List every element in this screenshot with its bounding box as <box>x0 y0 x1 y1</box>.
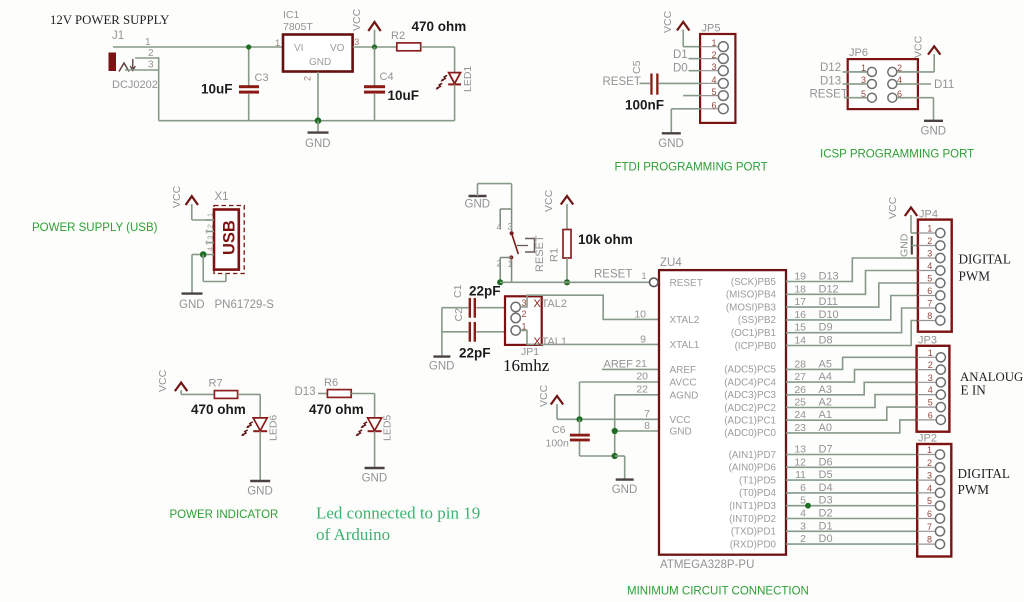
wire VCC to JP5 pin1 <box>683 46 700 48</box>
svg-text:3: 3 <box>148 60 154 71</box>
svg-text:D11: D11 <box>934 79 954 91</box>
svg-text:4: 4 <box>928 385 933 395</box>
svg-text:1: 1 <box>641 271 646 281</box>
svg-text:X1: X1 <box>215 191 229 203</box>
pin number 13 and net label D7 <box>794 444 832 456</box>
svg-text:RESET: RESET <box>603 76 641 88</box>
net label XTAL2 <box>534 298 567 310</box>
svg-text:25: 25 <box>794 397 806 409</box>
svg-text:GND: GND <box>247 486 273 498</box>
svg-text:VCC: VCC <box>171 185 183 208</box>
svg-text:DIGITAL: DIGITAL <box>959 252 1011 267</box>
svg-text:(ADC4)PC4: (ADC4)PC4 <box>724 377 776 388</box>
svg-text:C5: C5 <box>631 60 643 74</box>
node C6 ground junction <box>612 453 618 459</box>
wire JP6 pin4 to D11 <box>897 83 931 85</box>
svg-text:DIGITAL: DIGITAL <box>958 466 1010 481</box>
svg-text:VCC: VCC <box>887 196 899 219</box>
wire JP5 pin6 to ground <box>671 109 700 133</box>
svg-text:12V POWER SUPPLY: 12V POWER SUPPLY <box>50 13 169 27</box>
svg-text:10: 10 <box>634 309 646 321</box>
svg-text:5: 5 <box>927 496 932 506</box>
net label RESET at JP6 <box>810 89 848 101</box>
svg-text:DCJ0202: DCJ0202 <box>112 79 158 91</box>
svg-text:12: 12 <box>794 456 806 468</box>
net label D13 at JP6 <box>820 75 841 87</box>
svg-text:GND: GND <box>305 138 331 150</box>
wire A0 ZU4 pin23 to JP3 <box>786 420 917 433</box>
svg-text:(TXD)PD1: (TXD)PD1 <box>731 527 776 538</box>
svg-text:4: 4 <box>927 261 932 271</box>
wire crystal caps to ground <box>441 308 443 357</box>
pin number 25 and net label A2 <box>794 397 832 409</box>
svg-text:VO: VO <box>330 43 345 54</box>
svg-text:(ADC0)PC0: (ADC0)PC0 <box>724 428 776 439</box>
wire A2 ZU4 pin25 to JP3 <box>786 395 917 408</box>
wire A1 ZU4 pin24 to JP3 <box>786 407 917 420</box>
svg-text:22: 22 <box>636 384 648 396</box>
svg-text:(SCK)PB5: (SCK)PB5 <box>731 277 777 288</box>
svg-text:(T1)PD5: (T1)PD5 <box>739 475 777 486</box>
svg-text:LED5: LED5 <box>382 415 394 441</box>
svg-text:GND: GND <box>179 299 205 311</box>
svg-text:AVCC: AVCC <box>670 378 697 389</box>
svg-text:D13: D13 <box>820 75 841 87</box>
svg-text:8: 8 <box>927 535 932 545</box>
LED LED1 <box>436 47 475 121</box>
section title 12V POWER SUPPLY <box>50 13 169 27</box>
svg-text:16mhz: 16mhz <box>503 356 550 375</box>
wire to chip ground symbol <box>615 456 625 479</box>
power symbol VCC for R1 <box>543 189 573 229</box>
svg-text:Led connected to pin 19: Led connected to pin 19 <box>316 504 480 523</box>
power symbol VCC for USB <box>171 185 198 220</box>
net label D1 <box>673 49 688 61</box>
svg-text:C1: C1 <box>452 284 464 298</box>
wire JP6 pin6 to ground <box>897 98 934 121</box>
wire D10 ZU4 pin16 to JP4 <box>786 296 918 320</box>
svg-text:GND: GND <box>670 427 692 438</box>
wire X1 pin4 to ground <box>192 255 203 294</box>
svg-text:GND: GND <box>309 57 331 68</box>
switch S1 RESET pushbutton <box>497 209 547 282</box>
wire XTAL1 from JP1 pin1 to ZU4 pin9 <box>520 330 659 344</box>
svg-text:A1: A1 <box>819 409 832 421</box>
svg-text:C3: C3 <box>255 72 269 84</box>
pin number 27 and net label A4 <box>794 371 832 383</box>
net label RESET at C5 <box>603 76 641 88</box>
wire IC1 GND pin to ground rail <box>317 72 319 121</box>
pin number 15 and net label D9 <box>794 322 832 334</box>
IC ZU4 ATMEGA328P-PU <box>641 257 786 571</box>
svg-text:ATMEGA328P-PU: ATMEGA328P-PU <box>660 559 754 571</box>
svg-text:1: 1 <box>711 38 716 48</box>
svg-text:1: 1 <box>927 224 932 234</box>
capacitor C6 100n <box>546 419 615 456</box>
svg-text:MINIMUM CIRCUIT CONNECTION: MINIMUM CIRCUIT CONNECTION <box>627 586 809 598</box>
ground symbol JP4 pin2 GND <box>899 233 918 257</box>
svg-text:(INT1)PD3: (INT1)PD3 <box>729 501 776 512</box>
svg-text:ZU4: ZU4 <box>660 257 682 269</box>
ground symbol at reset switch <box>465 184 491 211</box>
section title POWER SUPPLY (USB) <box>32 222 158 234</box>
net label D0 <box>673 63 688 75</box>
svg-text:GND: GND <box>921 126 947 138</box>
svg-text:D8: D8 <box>819 335 833 347</box>
capacitor C1 22pF <box>442 284 511 318</box>
svg-text:A4: A4 <box>819 371 832 383</box>
pin number 28 and net label A5 <box>794 358 832 370</box>
pin number 9 ZU4 XTAL1 <box>640 334 646 346</box>
svg-text:28: 28 <box>794 358 806 370</box>
svg-text:X: X <box>534 298 542 310</box>
LED LED5 <box>356 415 394 468</box>
svg-text:R2: R2 <box>391 30 405 42</box>
svg-text:D7: D7 <box>819 444 833 456</box>
svg-text:of Arduino: of Arduino <box>316 525 390 544</box>
svg-text:2: 2 <box>927 236 932 246</box>
caption DIGITAL PWM upper <box>959 252 1011 284</box>
power symbol VCC for JP5 <box>662 10 689 46</box>
ground symbol JP5 GND <box>658 133 684 150</box>
caption MINIMUM CIRCUIT CONNECTION <box>627 586 809 598</box>
wire AVCC to VCC junction <box>580 371 660 420</box>
svg-text:16: 16 <box>794 309 806 321</box>
svg-text:3: 3 <box>711 62 716 72</box>
caption DIGITAL PWM lower <box>958 466 1010 497</box>
pin number 11 and net label D5 <box>795 469 832 481</box>
svg-text:D3: D3 <box>819 495 833 507</box>
svg-text:XTAL1: XTAL1 <box>670 340 700 351</box>
svg-text:21: 21 <box>635 358 647 370</box>
svg-text:6: 6 <box>927 286 932 296</box>
svg-text:9: 9 <box>640 334 646 346</box>
pin number 10 ZU4 XTAL2 <box>634 309 646 321</box>
pin number 16 and net label D10 <box>794 309 838 321</box>
svg-text:R6: R6 <box>324 377 338 389</box>
wire D13 ZU4 pin19 to JP4 <box>786 258 918 282</box>
wire X1 shield to ground <box>203 255 226 282</box>
wire D1 to JP5 pin2 <box>689 58 701 60</box>
svg-text:2: 2 <box>303 76 313 81</box>
wire R6 to LED5 <box>351 394 374 418</box>
svg-text:10uF: 10uF <box>388 88 420 103</box>
svg-text:VCC: VCC <box>913 35 925 58</box>
svg-text:RESET: RESET <box>810 89 848 101</box>
svg-text:18: 18 <box>794 283 806 295</box>
svg-text:D4: D4 <box>819 482 833 494</box>
svg-text:ICSP PROGRAMMING PORT: ICSP PROGRAMMING PORT <box>820 149 974 161</box>
wire J1 pin3 <box>125 69 159 71</box>
wire A5 ZU4 pin28 to JP3 <box>786 357 917 369</box>
connector JP6 ICSP header <box>848 47 918 109</box>
svg-text:13: 13 <box>794 444 806 456</box>
wire D2 ZU4 pin4 to JP2 <box>786 518 917 520</box>
svg-text:D2: D2 <box>819 508 833 520</box>
resistor R6 470 ohm <box>309 377 364 417</box>
power symbol VCC at C6 <box>538 384 563 419</box>
wire D11 ZU4 pin17 to JP4 <box>786 283 918 307</box>
svg-text:D11: D11 <box>819 296 838 308</box>
svg-text:4: 4 <box>711 75 716 85</box>
svg-text:J1: J1 <box>112 30 124 42</box>
node D3 junction <box>805 503 811 509</box>
power symbol VCC for JP6 <box>913 35 941 71</box>
svg-text:(ADC1)PC1: (ADC1)PC1 <box>724 416 776 427</box>
power symbol VCC for R7 <box>157 369 214 394</box>
svg-text:VCC: VCC <box>538 384 550 407</box>
svg-text:7: 7 <box>927 299 932 309</box>
svg-text:XTAL2: XTAL2 <box>670 315 700 326</box>
svg-text:D0: D0 <box>819 533 833 545</box>
svg-text:TAL1: TAL1 <box>542 336 567 348</box>
svg-text:PWM: PWM <box>959 269 991 284</box>
svg-text:3: 3 <box>927 471 932 481</box>
connector JP5 FTDI header <box>700 23 735 123</box>
svg-text:4: 4 <box>800 508 806 520</box>
pin number 19 and net label D13 <box>794 271 838 283</box>
svg-text:A2: A2 <box>819 397 832 409</box>
pin number 17 and net label D11 <box>794 296 838 308</box>
caption ICSP PROGRAMMING PORT <box>820 149 974 161</box>
svg-text:7: 7 <box>927 522 932 532</box>
net label D13 at R6 <box>295 386 316 398</box>
resistor R2 470 ohm <box>391 19 466 51</box>
pin number 23 and net label A0 <box>794 422 832 434</box>
svg-text:(AIN0)PD6: (AIN0)PD6 <box>729 463 777 474</box>
wire D13 to R6 <box>318 393 327 395</box>
svg-text:GND: GND <box>899 233 911 257</box>
svg-text:10k ohm: 10k ohm <box>578 232 633 247</box>
wire XTAL2 from JP1 pin3 to ZU4 pin10 <box>520 295 659 319</box>
svg-text:2: 2 <box>927 458 932 468</box>
svg-text:D0: D0 <box>673 63 688 75</box>
svg-text:POWER INDICATOR: POWER INDICATOR <box>170 509 279 521</box>
svg-text:6: 6 <box>927 509 932 519</box>
wire D4 ZU4 pin6 to JP2 <box>786 492 917 494</box>
svg-text:3: 3 <box>206 235 215 239</box>
connector JP2 header <box>917 433 951 557</box>
svg-text:GND: GND <box>465 199 491 211</box>
net label RESET <box>594 269 632 281</box>
pin number 12 and net label D6 <box>794 456 832 468</box>
svg-text:22pF: 22pF <box>469 284 501 299</box>
power symbol VCC for JP4 <box>887 196 918 233</box>
wire GND to ZU4 pin8 <box>615 420 659 432</box>
power symbol VCC at regulator output <box>351 8 381 47</box>
connector JP1 crystal 16mhz <box>503 296 550 375</box>
svg-text:2: 2 <box>800 533 806 545</box>
pin number 6 and net label D4 <box>800 482 832 494</box>
voltage regulator IC1 7805T <box>275 9 359 81</box>
svg-text:LED1: LED1 <box>462 66 474 92</box>
svg-text:GND: GND <box>658 138 684 150</box>
connector X1 USB PN61729-S <box>203 191 274 311</box>
wire D8 ZU4 pin14 to JP4 <box>786 321 918 346</box>
svg-text:TAL2: TAL2 <box>542 298 567 310</box>
wire D12 ZU4 pin18 to JP4 <box>786 271 918 295</box>
svg-text:VCC: VCC <box>351 8 363 31</box>
ground symbol crystal GND <box>429 357 455 373</box>
svg-text:(MOSI)PB3: (MOSI)PB3 <box>726 302 777 313</box>
svg-text:X: X <box>534 336 542 348</box>
svg-text:20: 20 <box>636 371 648 383</box>
svg-text:1: 1 <box>927 445 932 455</box>
node C3 top junction <box>246 44 251 49</box>
node switch to reset net <box>497 279 503 285</box>
node VCC C6 junction <box>576 416 582 422</box>
ground symbol USB GND <box>179 294 205 311</box>
wire VCC to X1 pin1 <box>192 219 214 221</box>
svg-text:(ADC5)PC5: (ADC5)PC5 <box>724 365 776 376</box>
svg-text:C6: C6 <box>552 424 566 436</box>
caption ANALOUG E IN <box>960 370 1023 398</box>
wire D3 ZU4 pin5 to JP2 <box>786 505 917 507</box>
caption POWER INDICATOR <box>170 509 279 521</box>
svg-text:IC1: IC1 <box>283 9 300 21</box>
svg-text:JP2: JP2 <box>918 433 937 445</box>
svg-text:RESET: RESET <box>594 269 632 281</box>
svg-text:(INT0)PD2: (INT0)PD2 <box>729 514 776 525</box>
svg-text:7805T: 7805T <box>283 21 313 33</box>
resistor R1 10k ohm <box>549 230 633 263</box>
pin number 26 and net label A3 <box>794 384 832 396</box>
svg-text:AGND: AGND <box>670 390 699 401</box>
net label AREF and wire to ZU4 pin21 <box>602 358 659 371</box>
svg-text:6: 6 <box>711 100 716 110</box>
node R1 reset junction <box>564 279 570 285</box>
connector JP4 header <box>918 209 952 332</box>
pin number 2 and net label D0 <box>800 533 832 545</box>
svg-text:D13: D13 <box>295 386 316 398</box>
wire RESET to JP6 pin5 <box>844 97 867 99</box>
svg-text:(SS)PB2: (SS)PB2 <box>738 315 776 326</box>
svg-text:D9: D9 <box>819 322 833 334</box>
svg-text:5: 5 <box>927 274 932 284</box>
svg-text:VI: VI <box>294 43 303 54</box>
wire ground rail bottom <box>159 120 455 122</box>
svg-text:RESET: RESET <box>534 235 546 272</box>
wire AGND to ground <box>615 384 659 457</box>
svg-text:2: 2 <box>928 360 933 370</box>
net label D11 <box>934 79 954 91</box>
wire D5 ZU4 pin11 to JP2 <box>786 479 917 481</box>
wire D12 to JP6 pin1 <box>843 71 868 73</box>
svg-text:VCC: VCC <box>157 369 169 392</box>
node VCC junction <box>372 44 377 49</box>
capacitor C2 22pF <box>442 308 511 361</box>
svg-text:D1: D1 <box>819 520 833 532</box>
svg-text:D6: D6 <box>819 456 833 468</box>
svg-text:C4: C4 <box>380 71 394 83</box>
svg-text:100n: 100n <box>546 438 570 450</box>
svg-text:D10: D10 <box>819 309 839 321</box>
svg-text:1: 1 <box>206 213 215 217</box>
svg-text:(ADC3)PC3: (ADC3)PC3 <box>724 390 776 401</box>
capacitor C5 100nF <box>625 60 664 112</box>
svg-text:1: 1 <box>275 38 280 49</box>
wire C5 to JP5 pin4 <box>659 82 700 84</box>
svg-text:VCC: VCC <box>670 415 691 426</box>
svg-text:4: 4 <box>206 247 215 251</box>
caption FTDI PROGRAMMING PORT <box>615 162 768 174</box>
wire R7 to LED6 <box>238 394 261 418</box>
svg-text:(T0)PD4: (T0)PD4 <box>739 488 777 499</box>
pin number 5 and net label D3 <box>800 495 832 507</box>
svg-text:(RXD)PD0: (RXD)PD0 <box>730 539 777 550</box>
wire JP6 pin2 to VCC <box>897 71 934 73</box>
svg-text:VCC: VCC <box>543 189 555 212</box>
svg-text:R7: R7 <box>209 378 223 390</box>
svg-text:15: 15 <box>794 322 806 334</box>
wire reset net to ZU4 pin1 <box>500 281 650 283</box>
svg-text:D12: D12 <box>820 62 841 74</box>
wire A3 ZU4 pin26 to JP3 <box>786 382 917 395</box>
wire switch to ground <box>478 184 512 209</box>
node AGND GND junction <box>612 428 618 434</box>
svg-text:JP5: JP5 <box>702 23 721 35</box>
wire D9 ZU4 pin15 to JP4 <box>786 308 918 333</box>
ground symbol JP6 GND <box>921 121 947 138</box>
svg-text:3: 3 <box>508 222 513 232</box>
ground symbol LED5 GND <box>362 468 388 485</box>
pin number 18 and net label D12 <box>794 283 838 295</box>
svg-text:JP6: JP6 <box>849 47 868 59</box>
svg-text:(ICP)PB0: (ICP)PB0 <box>735 341 777 352</box>
svg-text:1: 1 <box>928 348 933 358</box>
node X1 pin4 junction <box>200 251 207 258</box>
net label XTAL1 <box>534 336 567 348</box>
svg-text:(OC1)PB1: (OC1)PB1 <box>731 328 776 339</box>
wire R2 to LED1 <box>421 46 455 48</box>
svg-text:470 ohm: 470 ohm <box>412 19 467 34</box>
svg-text:GND: GND <box>612 484 638 496</box>
wire D1 ZU4 pin3 to JP2 <box>786 530 917 532</box>
wire IC1 VO to VCC node <box>353 46 397 48</box>
svg-text:(AIN1)PD7: (AIN1)PD7 <box>729 450 776 461</box>
svg-text:27: 27 <box>794 371 806 383</box>
svg-text:19: 19 <box>794 271 806 283</box>
svg-text:FTDI PROGRAMMING PORT: FTDI PROGRAMMING PORT <box>615 162 768 174</box>
svg-text:6: 6 <box>800 482 806 494</box>
svg-text:AREF: AREF <box>670 365 697 376</box>
ground symbol main rail GND <box>305 117 331 150</box>
svg-text:PN61729-S: PN61729-S <box>215 299 275 311</box>
wire D13 to JP6 pin3 <box>843 83 868 85</box>
wire stub JP5 pin5 <box>683 95 700 97</box>
connector J1 barrel jack DCJ0202 <box>109 30 158 91</box>
svg-text:8: 8 <box>644 420 650 432</box>
wire RESET to C5 <box>640 82 651 84</box>
svg-text:RESET: RESET <box>670 278 703 289</box>
svg-text:3: 3 <box>800 520 806 532</box>
svg-text:GND: GND <box>429 361 455 373</box>
net label D12 <box>820 62 841 74</box>
svg-text:17: 17 <box>794 296 806 308</box>
svg-text:(ADC2)PC2: (ADC2)PC2 <box>724 403 776 414</box>
svg-text:5: 5 <box>711 87 716 97</box>
capacitor C3 10uF <box>201 47 269 121</box>
svg-text:2: 2 <box>711 50 716 60</box>
svg-text:22pF: 22pF <box>459 346 491 361</box>
svg-text:R1: R1 <box>549 248 561 262</box>
svg-text:D13: D13 <box>819 271 839 283</box>
LED LED6 <box>241 415 279 481</box>
svg-text:3: 3 <box>927 249 932 259</box>
wire R1 to reset net <box>566 258 568 282</box>
ground symbol LED6 GND <box>247 481 273 498</box>
connector JP3 header <box>917 335 950 432</box>
